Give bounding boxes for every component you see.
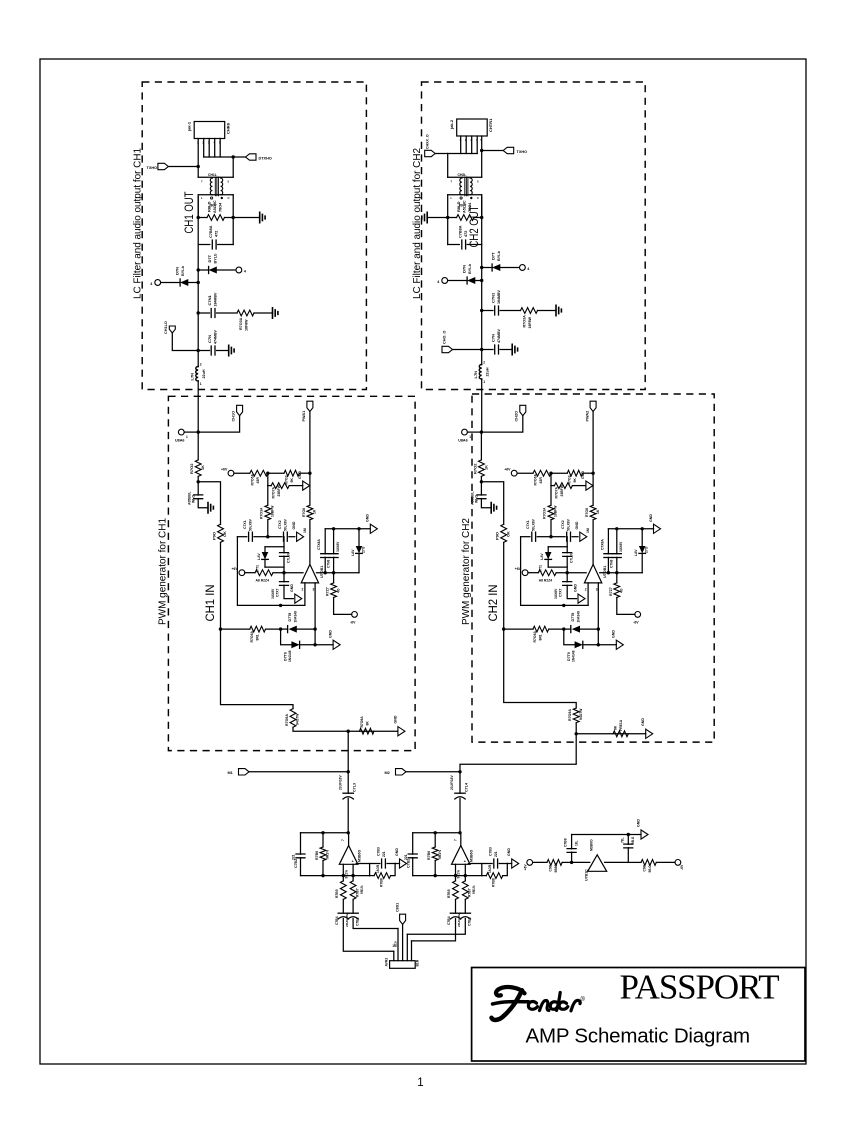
svg-text:PRE1A: PRE1A: [619, 719, 623, 731]
svg-text:94O7W: 94O7W: [296, 713, 300, 725]
node secondary left: [446, 216, 449, 219]
flag CH2LO: [442, 346, 453, 352]
terminal +6V master: [527, 860, 533, 866]
wire op-amp plus pin: [314, 583, 316, 645]
op-amp U7O8 CH2: [452, 846, 471, 865]
bottom rail CH2: [413, 875, 482, 877]
wire flag CHO_O to bus: [453, 349, 482, 351]
node PWM rail top: [591, 472, 594, 475]
diode D7T8 CH1: [287, 626, 289, 633]
gnd flag diode row: [616, 640, 623, 649]
resistor R7B6 CH2: [434, 833, 436, 847]
svg-text:R7B7: R7B7: [355, 888, 359, 897]
svg-text:LAV: LAV: [634, 549, 638, 556]
svg-text:23UF/16V: 23UF/16V: [457, 913, 461, 927]
svg-text:8R1: 8R1: [539, 634, 543, 640]
svg-text:R7O6A: R7O6A: [250, 630, 254, 642]
flag DTXHO: [233, 156, 245, 158]
node R7O2 out: [197, 476, 199, 481]
svg-text:2: 2: [483, 361, 485, 365]
ground secondary ch2: [427, 217, 448, 219]
svg-text:CH1O: CH1O: [232, 411, 236, 422]
node preamp bus CH1: [347, 770, 350, 773]
svg-text:BYLb: BYLb: [468, 263, 472, 274]
node master in: [570, 861, 573, 864]
resistor P9O CH2: [501, 524, 507, 542]
capacitor C7B8 master: [571, 852, 573, 862]
svg-text:C7B2: C7B2: [294, 859, 298, 868]
svg-text:1: 1: [417, 1077, 423, 1089]
diode D7T CH1 to terminal: [197, 268, 200, 271]
inductor L7N CH1 22uH: [196, 367, 198, 382]
svg-text:jak-1: jak-1: [187, 121, 192, 132]
svg-text:23BFW: 23BFW: [277, 484, 281, 496]
loop frame CH2: [521, 537, 589, 606]
node diode row1 left: [562, 627, 565, 630]
node +6V row mid: [282, 571, 285, 574]
resistor R7O7A CH2 row2: [550, 473, 552, 485]
svg-text:BYLb: BYLb: [181, 265, 185, 276]
zener loop wires: [548, 546, 567, 548]
loop frame CH1: [237, 537, 305, 606]
svg-text:C7X7: C7X7: [275, 588, 279, 597]
svg-text:1K: 1K: [313, 509, 317, 514]
svg-text:PWA1: PWA1: [302, 411, 306, 422]
svg-text:GND: GND: [290, 584, 294, 592]
svg-text:GND: GND: [581, 471, 585, 479]
wire flag to primary left: [435, 153, 448, 155]
bottom rail CH1: [301, 875, 370, 877]
svg-text:1N4148: 1N4148: [293, 611, 297, 623]
ground C7N1 CH1: [273, 308, 278, 318]
capacitor C7B8A CH2: [448, 244, 460, 246]
connector pins: [460, 136, 462, 154]
svg-text:C8: C8: [394, 941, 398, 945]
dashed box: LC Filter and audio output for CH1: [142, 82, 366, 390]
flag M1: [239, 769, 250, 775]
svg-text:C9O: C9O: [643, 864, 647, 871]
zener D7Z2 CH1: [357, 527, 360, 530]
resistor R2Z4 CH2: [528, 572, 538, 574]
svg-text:8K: 8K: [366, 721, 370, 726]
svg-text:C7L1V: C7L1V: [570, 552, 574, 563]
gnd flag cluster top: [580, 532, 587, 541]
node bottom exit CH2: [575, 732, 578, 735]
transformer T CH1L: [198, 176, 233, 178]
svg-text:9K: 9K: [290, 478, 294, 483]
wire pin bus: [204, 156, 234, 158]
diode D7T CH2 to terminal: [480, 266, 483, 269]
svg-text:D7N: D7N: [175, 267, 180, 275]
svg-text:C: C: [477, 196, 479, 200]
svg-text:1K: 1K: [596, 509, 600, 514]
svg-text:C7N: C7N: [207, 335, 212, 343]
dashed box: LC Filter and audio output for CH2: [422, 82, 646, 390]
ground C7W: [208, 503, 213, 513]
svg-text:7: 7: [201, 180, 203, 184]
resistor R7B6 CH1: [322, 833, 324, 847]
svg-text:1M: 1M: [303, 528, 307, 533]
svg-text:+6V: +6V: [232, 567, 239, 571]
svg-text:27O: 27O: [362, 546, 366, 553]
terminal U8A6 CH1: [178, 429, 184, 435]
svg-text:43R: 43R: [256, 477, 260, 484]
resistor R7O3A CH1 vert: [267, 486, 269, 506]
svg-text:9R1%: 9R1%: [457, 870, 461, 879]
svg-text:472: 472: [215, 231, 219, 237]
svg-text:WLO: WLO: [192, 495, 196, 503]
inductor L7N CH2 22uH: [479, 365, 481, 380]
svg-text:7: 7: [341, 839, 345, 841]
svg-text:CH2O: CH2O: [515, 411, 519, 422]
output loop CH2: [468, 864, 481, 876]
wire terminal to bus: [467, 431, 481, 433]
node bus in: [197, 430, 200, 433]
op-amp output row: [317, 572, 360, 574]
svg-text:LC Filter and audio output for: LC Filter and audio output for CH2: [412, 148, 423, 299]
diode D7T9 CH2: [564, 629, 575, 645]
svg-text:9K: 9K: [573, 478, 577, 483]
capacitor C7B3 CH1: [370, 863, 380, 865]
svg-text:2: 2: [200, 363, 202, 367]
svg-text:-6V: -6V: [633, 621, 639, 625]
svg-text:78L: 78L: [620, 838, 624, 843]
flag C8S1: [400, 914, 406, 924]
ground C7N CH2: [512, 344, 517, 354]
gnd flag row2: [586, 481, 593, 490]
zener D7Z CH1: [264, 547, 266, 552]
flag CH2O: [481, 416, 522, 432]
svg-text:CH1 OUT: CH1 OUT: [182, 191, 196, 234]
svg-text:3: 3: [313, 588, 315, 592]
svg-text:3UX8V: 3UX8V: [554, 588, 558, 599]
svg-text:GND: GND: [507, 848, 511, 856]
svg-text:C7X1: C7X1: [243, 520, 247, 529]
svg-text:CH1LO: CH1LO: [164, 321, 168, 334]
svg-text:M1: M1: [228, 771, 233, 775]
terminal -6V: [352, 612, 358, 618]
svg-text:50LX8V: 50LX8V: [249, 518, 253, 531]
wire op-amp pins down: [342, 864, 344, 881]
connector P2 (jak-2): [457, 119, 488, 136]
wire PWM flag down: [309, 412, 311, 474]
wire M1 to bus: [249, 771, 348, 773]
svg-text:R7B6: R7B6: [315, 851, 319, 860]
resistor R7O3A CH1: [237, 310, 254, 316]
svg-text:C7X2: C7X2: [561, 520, 565, 529]
svg-text:23UF/16V: 23UF/16V: [338, 775, 342, 790]
svg-text:D7T9: D7T9: [567, 652, 571, 661]
resistor R7O3A CH2: [521, 308, 538, 314]
resistor R7O6A CH2 bottom: [533, 626, 549, 632]
svg-text:R7B7: R7B7: [468, 888, 472, 897]
svg-text:CH2 OUT: CH2 OUT: [467, 205, 481, 248]
svg-text:1K: 1K: [201, 465, 205, 470]
resistor R7B8 CH2: [482, 875, 487, 877]
capacitor C7N8 CH1: [332, 527, 335, 530]
capacitor C7X8A CH2: [607, 529, 609, 554]
svg-text:GND: GND: [395, 848, 399, 856]
svg-text:LAV: LAV: [257, 553, 261, 560]
svg-text:CHO_O: CHO_O: [443, 330, 447, 344]
svg-text:A8 R2Z4: A8 R2Z4: [256, 579, 270, 583]
node bus in: [480, 430, 483, 433]
wire terminal to bus: [184, 431, 198, 433]
svg-text:R7O8: R7O8: [302, 508, 306, 517]
dashed box: PWM generator for CH1: [168, 396, 415, 750]
gnd flag preamp out CH2: [507, 863, 511, 865]
capacitor C7W CH1: [197, 482, 199, 495]
node cluster top: [549, 535, 552, 538]
wire bottom row CH1: [293, 727, 398, 731]
svg-text:C7L3: C7L3: [353, 783, 357, 792]
svg-text:R7O3A: R7O3A: [523, 315, 527, 328]
transformer T CH2L: [448, 176, 482, 178]
svg-text:7: 7: [451, 180, 453, 184]
terminal U8A6 CH2: [462, 429, 468, 435]
flag M2: [396, 769, 407, 775]
svg-text:C7N8: C7N8: [327, 559, 331, 568]
svg-text:221: 221: [494, 851, 498, 857]
svg-text:43R: 43R: [539, 477, 543, 484]
svg-text:GND: GND: [641, 718, 645, 726]
op-amp output row: [600, 572, 643, 574]
svg-text:+: +: [464, 860, 467, 864]
resistor R7B5 CH2: [453, 881, 459, 900]
capacitor C7W CH2: [480, 482, 482, 495]
svg-text:M3B6O: M3B6O: [470, 849, 474, 862]
svg-text:C7N1: C7N1: [207, 294, 212, 305]
svg-text:L7N: L7N: [190, 373, 195, 381]
capacitor C7B8A CH1: [198, 244, 210, 246]
svg-text:1: 1: [483, 380, 485, 384]
svg-text:PWA2: PWA2: [585, 411, 589, 422]
svg-text:GND: GND: [575, 521, 579, 529]
svg-text:R7O6A: R7O6A: [534, 473, 538, 485]
resistor R7O2 CH2: [480, 432, 482, 460]
ground C7N1 CH2: [556, 305, 561, 315]
capacitor C7X1 CH1: [237, 536, 246, 538]
svg-text:L: L: [201, 196, 203, 200]
svg-text:R7O3A: R7O3A: [259, 507, 263, 519]
wire bottom row CH2: [576, 723, 646, 734]
capacitor C7L1A CH2: [566, 537, 568, 553]
svg-text:C7X7: C7X7: [559, 588, 563, 597]
svg-text:3UX8V: 3UX8V: [619, 541, 623, 552]
svg-text:C7N8: C7N8: [610, 559, 614, 568]
svg-text:2: 2: [302, 588, 304, 592]
wire +6V to R: [533, 861, 547, 863]
svg-text:1N4148: 1N4148: [571, 650, 575, 662]
svg-text:jak-2: jak-2: [449, 119, 454, 130]
capacitor C7N1 CH2: [480, 309, 483, 312]
svg-text:4: 4: [437, 280, 440, 284]
svg-text:A5LHC: A5LHC: [213, 200, 217, 213]
wire left rail to bottom CH2: [504, 629, 577, 708]
node pin5: [480, 149, 483, 152]
wire left rail down: [220, 542, 222, 629]
svg-text:4O: 4O: [620, 588, 624, 593]
svg-text:3UX8V: 3UX8V: [271, 588, 275, 599]
resistor R7O9A CH2 vert: [573, 708, 579, 723]
svg-text:®: ®: [581, 996, 586, 1003]
svg-text:GND: GND: [649, 514, 653, 522]
svg-text:9R1%: 9R1%: [360, 885, 364, 894]
svg-text:R7O9A: R7O9A: [285, 714, 289, 726]
svg-text:R7B5: R7B5: [447, 889, 451, 898]
wire +6V row: [517, 472, 533, 474]
svg-text:R7Z7: R7Z7: [609, 587, 613, 596]
connector pins: [197, 139, 199, 167]
wire to primary left: [197, 167, 199, 178]
node cluster top: [266, 535, 269, 538]
title block frame: [472, 968, 805, 1062]
resistor R7LD CH1 damping: [198, 217, 207, 219]
resistor R7O8 CH1 vert: [307, 505, 313, 520]
gnd flag cluster top: [297, 532, 304, 541]
capacitor C7X2 CH2: [567, 532, 571, 541]
wire secondary right to bus: [481, 195, 483, 218]
node diode row1 right: [597, 627, 600, 630]
svg-text:D7T: D7T: [491, 252, 496, 260]
capacitor C7N CH1: [197, 349, 200, 352]
capacitor C7N8 CH2: [615, 527, 618, 530]
right rail GND CH1: [325, 528, 370, 530]
capacitor C7B3 CH2: [482, 863, 492, 865]
svg-text:+6V: +6V: [515, 567, 522, 571]
wire secondary right: [232, 195, 234, 218]
capacitor C7B1 CH2: [464, 899, 466, 913]
svg-text:1N4148: 1N4148: [288, 650, 292, 662]
svg-text:-: -: [453, 860, 455, 864]
svg-text:D7T9: D7T9: [284, 652, 288, 661]
svg-text:94O7W: 94O7W: [579, 708, 583, 720]
flag CH1O: [198, 416, 239, 432]
svg-text:R7O3A: R7O3A: [543, 507, 547, 519]
resistor R7LD CH2 damping: [448, 217, 457, 219]
ground C7N CH1: [229, 345, 234, 355]
svg-text:1: 1: [186, 435, 188, 439]
node mid top row: [266, 472, 269, 475]
op-amp U7OB1 CH1: [301, 564, 318, 583]
svg-text:C7B3: C7B3: [376, 847, 380, 856]
gnd flag C7X7: [295, 594, 302, 603]
capacitor C7B4 CH2: [455, 899, 457, 913]
resistor R7O6A CH1 bottom: [250, 626, 266, 632]
svg-text:C7N1: C7N1: [491, 292, 496, 303]
zener loop wires: [265, 546, 284, 548]
svg-text:CHTR1: CHTR1: [488, 118, 493, 132]
svg-text:50LX8V: 50LX8V: [532, 518, 536, 531]
wire to left rail: [198, 482, 220, 524]
gnd flag master: [641, 830, 648, 839]
page border frame: [40, 59, 806, 1064]
svg-text:C7L1V: C7L1V: [286, 552, 290, 563]
op-amp U7OB1 CH2: [584, 564, 601, 583]
wire left rail to bottom CH1: [221, 629, 294, 709]
resistor R2Z4 CH1: [245, 572, 255, 574]
svg-text:-6V: -6V: [350, 621, 356, 625]
svg-text:AVR2: AVR2: [385, 958, 389, 967]
wire left rail down: [503, 542, 505, 629]
svg-text:1N4148: 1N4148: [577, 611, 581, 623]
wire op-amp in: [572, 861, 590, 863]
gnd flag diode row: [333, 640, 340, 649]
wire to primary left coil: [447, 154, 449, 178]
svg-text:9R1%: 9R1%: [326, 850, 330, 859]
svg-text:D7T8: D7T8: [288, 613, 292, 622]
svg-text:3: 3: [596, 588, 598, 592]
flag CHXX_O: [425, 150, 436, 156]
svg-text:474MBV: 474MBV: [497, 328, 501, 343]
svg-text:C9O: C9O: [549, 864, 553, 871]
svg-text:OK: OK: [506, 531, 510, 537]
wire volume feed CH2: [412, 919, 456, 941]
wire M2 to bus: [406, 771, 460, 773]
svg-text:R8LD: R8LD: [456, 201, 461, 212]
svg-text:GND: GND: [292, 521, 296, 529]
gnd flag C7X7: [578, 594, 585, 603]
svg-text:9B8O4: 9B8O4: [554, 862, 558, 872]
resistor R7O3 CH1 top: [284, 470, 299, 476]
terminal -6V: [635, 612, 641, 618]
wire PWM flag down: [592, 412, 594, 474]
svg-text:CH1L: CH1L: [208, 173, 217, 177]
svg-text:M3B6O: M3B6O: [357, 849, 361, 862]
wire pin bus: [448, 153, 478, 155]
svg-text:50LX8V: 50LX8V: [567, 518, 571, 531]
capacitor C7B1 CH1: [352, 899, 354, 913]
terminal +6V op CH2: [522, 570, 528, 576]
svg-text:L7N: L7N: [473, 371, 478, 379]
svg-text:18F8W: 18F8W: [245, 319, 249, 331]
diode D7N CH2 from terminal: [442, 278, 448, 284]
svg-text:U7OB1: U7OB1: [320, 566, 324, 578]
svg-text:18BFW: 18BFW: [270, 505, 274, 517]
svg-text:1M: 1M: [586, 528, 590, 533]
op-amp U7B1C: [588, 855, 607, 872]
resistor R7Z7 CH2: [616, 573, 618, 583]
capacitor C7B9 master fb: [627, 848, 629, 863]
svg-text:23BFW: 23BFW: [560, 484, 564, 496]
ground C7W: [491, 503, 496, 513]
svg-text:C7B3: C7B3: [489, 847, 493, 856]
capacitor C7X1 CH2: [521, 536, 530, 538]
svg-text:8K: 8K: [614, 725, 618, 730]
wire TXHO to pin1: [169, 166, 199, 168]
svg-text:PWM generator for CH2: PWM generator for CH2: [461, 518, 472, 625]
svg-text:R7O9A: R7O9A: [360, 716, 364, 728]
svg-text:+: +: [352, 860, 355, 864]
capacitor C7X8A CH1: [324, 529, 326, 554]
pot pins: [393, 951, 395, 960]
wire C8S1 to pot: [402, 924, 404, 960]
node loop bottom: [279, 604, 282, 607]
svg-text:+6V: +6V: [524, 864, 528, 871]
resistor R7O6A CH1 top: [250, 470, 268, 476]
capacitor C7B4 CH1: [342, 899, 344, 913]
svg-text:GND: GND: [298, 471, 302, 479]
capacitor C7X2 CH1: [284, 532, 288, 541]
flag TXHO ch2: [482, 150, 504, 152]
resistor R7O2 CH1: [197, 432, 199, 460]
wire op-amp minus pin: [587, 583, 589, 606]
svg-text:D7T: D7T: [207, 254, 212, 262]
svg-text:R7O6A: R7O6A: [250, 473, 254, 485]
svg-text:R7O8: R7O8: [585, 508, 589, 517]
svg-text:B1R: B1R: [416, 959, 420, 966]
svg-text:A8 R2Z4: A8 R2Z4: [539, 579, 553, 583]
